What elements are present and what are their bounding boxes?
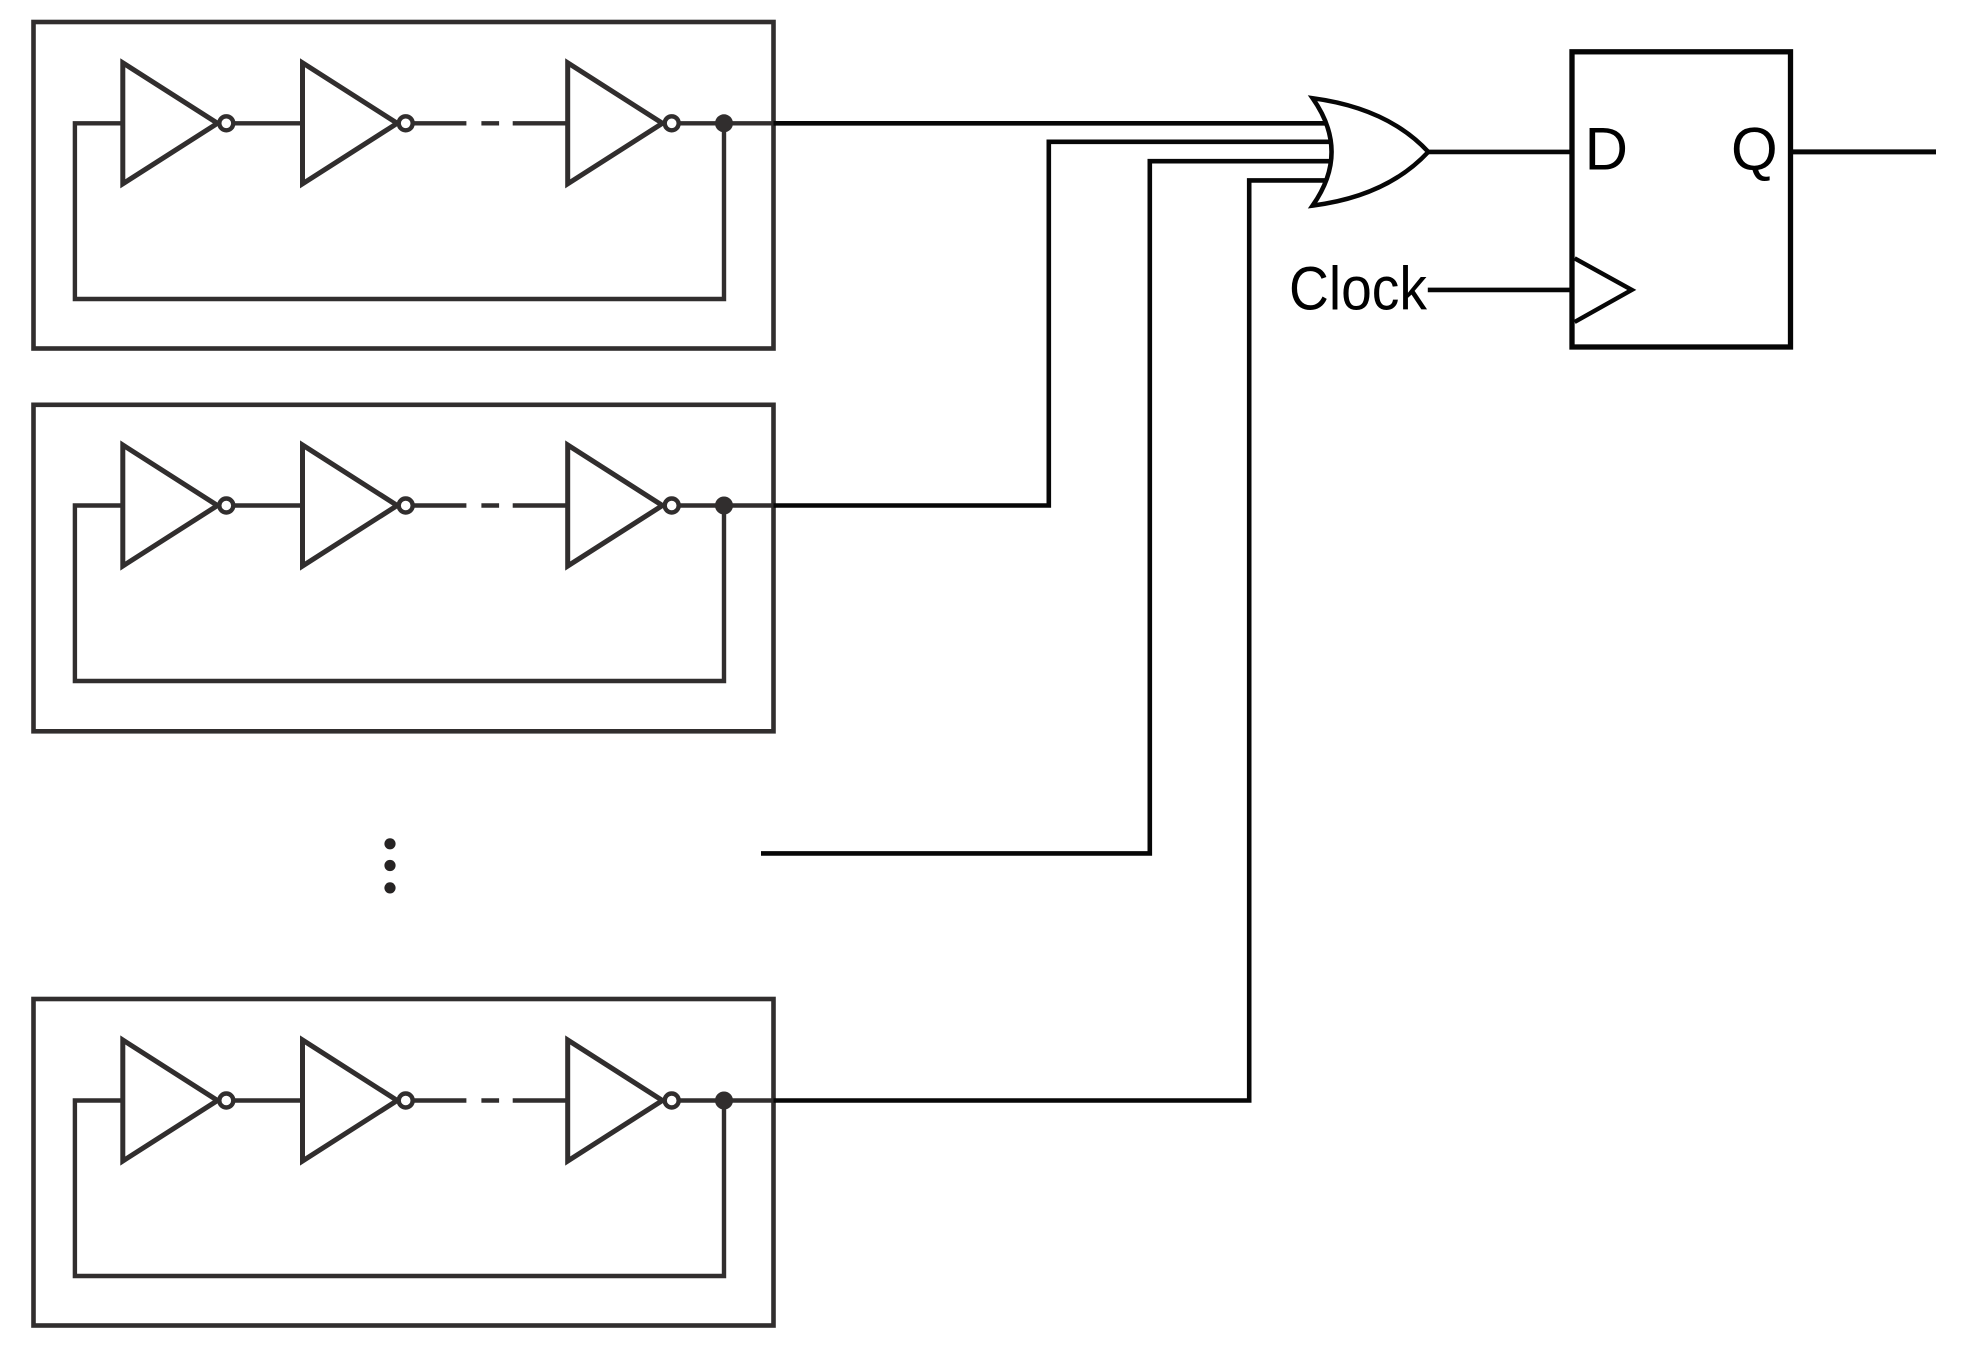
node junction RON (715, 1092, 733, 1110)
wire RO1 output to gate input 1 (774, 121, 1333, 126)
dot 2 (384, 860, 395, 871)
bubble inverter1 RO2 (219, 499, 233, 513)
inverter I1 RO2 (123, 445, 218, 566)
bubble inverter2 RO2 (399, 499, 413, 513)
wire inverter3 to node RO1 (672, 121, 776, 125)
wire inverter3 to node RON (672, 1098, 776, 1102)
wire inverter1 to inverter2 RO2 (226, 503, 303, 507)
box RO1 (34, 22, 774, 349)
bubble inverter3 RO2 (665, 499, 679, 513)
bubble inverter2 RO1 (399, 116, 413, 130)
wire inverter1 to inverter2 RON (226, 1098, 303, 1102)
wire feedback loop RO2 (75, 506, 724, 682)
wire dashed (omitted inverters) RO2 (413, 503, 568, 507)
bubble inverter3 RON (665, 1094, 679, 1108)
inverter I1 RO1 (123, 63, 218, 184)
wire dashed (omitted inverters) RON (413, 1098, 568, 1102)
wire gate output to D input (1428, 150, 1572, 155)
node junction RO1 (715, 114, 733, 132)
inverter I2 RO1 (303, 63, 398, 184)
node junction RO2 (715, 497, 733, 515)
D flip-flop U2 (1572, 52, 1791, 347)
dot 3 (384, 882, 395, 893)
wire Clock to flip-flop (1428, 288, 1572, 293)
inverter I3 RO1 (568, 63, 663, 184)
wire inverter3 to node RO2 (672, 503, 776, 507)
dot 1 (384, 838, 395, 849)
clock edge triangle (1575, 258, 1632, 322)
wire omitted-RO output to gate input 3 (761, 161, 1332, 853)
box RON (34, 999, 774, 1326)
svg-text:Clock: Clock (1289, 255, 1427, 323)
inverter I1 RON (123, 1040, 218, 1161)
inverter I2 RO2 (303, 445, 398, 566)
wire inverter1 to inverter2 RO1 (226, 121, 303, 125)
bubble inverter3 RO1 (665, 116, 679, 130)
wire feedback loop RO1 (75, 123, 724, 299)
box RO2 (34, 405, 774, 732)
bubble inverter1 RON (219, 1094, 233, 1108)
bubble inverter1 RO1 (219, 116, 233, 130)
OR gate U1 (1313, 98, 1429, 205)
wire RON output to gate input 4 (774, 180, 1333, 1100)
bubble inverter2 RON (399, 1094, 413, 1108)
svg-text:D: D (1585, 116, 1628, 183)
wire Q output (1791, 149, 1937, 154)
inverter I3 RON (568, 1040, 663, 1161)
inverter I3 RO2 (568, 445, 663, 566)
wire dashed (omitted inverters) RO1 (413, 121, 568, 125)
wire feedback loop RON (75, 1101, 724, 1277)
inverter I2 RON (303, 1040, 398, 1161)
wire RO2 output to gate input 2 (774, 142, 1333, 506)
svg-text:Q: Q (1731, 116, 1778, 183)
ellipsis dots between RO2 and RON (384, 838, 395, 893)
